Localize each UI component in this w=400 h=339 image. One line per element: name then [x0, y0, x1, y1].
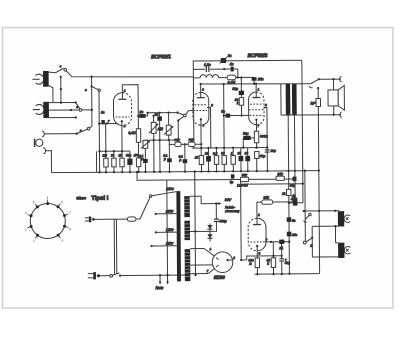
- svg-text:Netz: Netz: [156, 286, 164, 290]
- mains wire: [100, 275, 110, 277]
- resistor 50k: [222, 148, 227, 172]
- svg-text:1n: 1n: [101, 110, 105, 114]
- V1b grid dashes: [193, 105, 207, 111]
- wire S2 to vertical riser: [82, 109, 92, 111]
- riser wire to top rail: [91, 77, 93, 127]
- capacitor 0,1µ mid: [182, 144, 187, 171]
- V3 plate: [253, 202, 261, 224]
- link wire: [289, 202, 303, 204]
- resistor 70k a horizontal: [175, 142, 181, 146]
- potentiometer 2: [164, 125, 173, 135]
- tap wire 110v: [150, 245, 176, 248]
- resistor 70k b horizontal: [188, 142, 195, 146]
- mains plug: [88, 272, 100, 279]
- svg-text:2: 2: [232, 256, 235, 260]
- resistor 1k V1b cathode: [199, 155, 204, 171]
- speaker jack A: [338, 211, 350, 226]
- resistor 10k: [271, 242, 276, 274]
- svg-text:500µ: 500µ: [219, 219, 226, 223]
- resistor 1k cathode: [120, 151, 125, 172]
- transformer bottom wire: [178, 275, 180, 281]
- svg-text:1k: 1k: [195, 156, 199, 160]
- wire vertical from node down to jack2 contacts: [60, 77, 62, 103]
- svg-text:1: 1: [231, 151, 233, 155]
- secondary wire to diodes: [190, 230, 210, 232]
- svg-text:1n: 1n: [230, 62, 234, 66]
- top rail B wire: [193, 60, 302, 148]
- resistor 470k: [136, 158, 140, 167]
- potentiometer 1M volume: [149, 122, 158, 133]
- ground rail: [52, 171, 319, 173]
- power transformer primary core: [176, 191, 181, 281]
- wire pot1 bottom: [153, 133, 155, 171]
- tube V1a ECF82 pentode envelope: [113, 93, 131, 126]
- capacitor 10n: [245, 148, 250, 172]
- plug contact top: [340, 76, 342, 82]
- svg-text:0,1M: 0,1M: [228, 80, 236, 84]
- speaker terminal wires: [332, 78, 335, 116]
- grid wire: [99, 122, 118, 124]
- svg-text:5n: 5n: [221, 110, 225, 114]
- capacitor 5n: [287, 217, 296, 222]
- svg-text:1M: 1M: [102, 154, 107, 158]
- input jack J4: [35, 139, 43, 147]
- svg-text:50: 50: [221, 151, 225, 155]
- resistor box 20v: [276, 176, 284, 180]
- V2 plate: [252, 84, 260, 98]
- jack J5 arc to ground: [43, 147, 51, 172]
- cathode wire: [200, 119, 202, 155]
- svg-text:10: 10: [245, 151, 249, 155]
- mains line: [120, 274, 189, 277]
- capacitor 4µ lower: [292, 194, 297, 201]
- V1b cathode: [200, 118, 202, 120]
- svg-text:25n: 25n: [257, 77, 264, 81]
- svg-text:Gitare: Gitare: [76, 196, 86, 200]
- cathode wire: [121, 121, 123, 151]
- capacitor 25n: [252, 77, 257, 83]
- svg-text:1,2n: 1,2n: [204, 63, 211, 67]
- wire: [256, 143, 258, 148]
- svg-text:30k: 30k: [242, 173, 248, 177]
- rectifier tube EZ80: [212, 252, 233, 273]
- input jack J2: [33, 102, 49, 118]
- grid column wire: [98, 91, 101, 172]
- svg-text:50µ: 50µ: [260, 154, 265, 158]
- wire V2 pin2 to rail: [266, 146, 268, 148]
- sub rail y148: [192, 146, 267, 149]
- heater wire to EZ80 pin7: [189, 273, 208, 275]
- wire pot2 bottom: [168, 135, 170, 140]
- capacitor 0,1µ pot2 leg: [167, 140, 172, 172]
- resistor 70k: [112, 151, 117, 172]
- tap wire 125v: [155, 231, 177, 233]
- svg-text:70k: 70k: [174, 138, 180, 142]
- switch S3: [77, 126, 92, 134]
- svg-text:Tipsi I: Tipsi I: [91, 196, 109, 202]
- sub wire y150.5: [99, 150, 129, 152]
- grid leak to rail: [95, 151, 97, 172]
- capacitor 1n input: [101, 120, 104, 124]
- primary bottom wire down: [287, 115, 290, 189]
- svg-text:1A: 1A: [279, 246, 283, 250]
- node junction: [60, 76, 62, 78]
- wire plate to dropper: [122, 85, 138, 129]
- tube V2 ECF82 output pentode envelope: [248, 92, 264, 125]
- tap wire 220v: [152, 192, 177, 196]
- tube socket diagram: [24, 196, 72, 243]
- plate rail wire y84: [201, 83, 311, 84]
- tone bottom wire: [145, 139, 178, 141]
- svg-text:10: 10: [205, 152, 209, 156]
- feedback capacitor on rail: [220, 57, 227, 63]
- capacitor small on heater line: [292, 177, 296, 182]
- wire: [146, 113, 148, 116]
- pin 2 stub wire: [207, 108, 211, 148]
- svg-text:2n: 2n: [227, 54, 232, 58]
- V1b plate: [197, 84, 205, 98]
- svg-text:5µ: 5µ: [230, 180, 234, 184]
- wire: [311, 226, 313, 237]
- svg-text:5n: 5n: [292, 219, 296, 223]
- V2 grid dashes: [249, 104, 264, 115]
- capacitor 0,1µF: [143, 148, 148, 172]
- svg-text:50µ: 50µ: [271, 149, 276, 153]
- switch S7 on B+ column: [304, 213, 312, 222]
- svg-text:5n: 5n: [155, 113, 159, 117]
- S6 feed wire: [304, 170, 307, 242]
- secondary wire 30V: [190, 196, 222, 205]
- wire jack2 contact b: [49, 109, 79, 111]
- input jack J1: [32, 71, 48, 87]
- jack A bottom wire: [312, 225, 339, 227]
- switch S6: [303, 238, 313, 248]
- wire B+ down right of core: [302, 60, 303, 203]
- output jack line: [304, 210, 339, 212]
- ground return line: [255, 273, 320, 276]
- capacitor 50µ: [127, 151, 132, 172]
- svg-text:2: 2: [264, 103, 267, 107]
- mains switch: [110, 273, 122, 277]
- netz arrow 1: [159, 274, 162, 284]
- switch S2: [76, 103, 82, 112]
- svg-text:ECF82/1: ECF82/1: [151, 54, 171, 60]
- capacitor 25µ: [238, 148, 243, 172]
- svg-text:300Ω: 300Ω: [260, 134, 268, 138]
- voltage selector arm: [140, 195, 152, 219]
- svg-text:30V: 30V: [225, 198, 232, 202]
- V2 cathode: [255, 119, 257, 121]
- title Gitare Tipsi I: [76, 196, 109, 202]
- resistor 30k: [257, 200, 295, 205]
- svg-text:4µ: 4µ: [291, 197, 295, 201]
- V1a cathode: [121, 120, 123, 122]
- cathode wire: [256, 246, 258, 258]
- wire to jack B bottom: [312, 238, 338, 257]
- wire pot1 top: [153, 116, 155, 122]
- wire to rail: [137, 142, 139, 172]
- wire pot2 top: [168, 113, 170, 126]
- wire row2: [193, 68, 205, 70]
- resistor 0,1M: [227, 75, 236, 80]
- capacitor 50µ bypass: [243, 136, 254, 148]
- svg-text:EZ80: EZ80: [214, 275, 225, 280]
- capacitor 25n: [287, 232, 298, 237]
- speaker LS1: [328, 85, 344, 110]
- wire jack2 contact a: [49, 101, 76, 103]
- inductor L1: [193, 74, 227, 77]
- wire below 2k: [288, 196, 291, 274]
- wire to filter caps: [241, 256, 282, 260]
- wire from S1 to top rail: [67, 70, 194, 78]
- capacitor 4µ: [291, 197, 298, 206]
- svg-text:ECF82/2: ECF82/2: [248, 53, 268, 59]
- resistor 56k: [239, 98, 243, 106]
- coupling capacitor 2n: [139, 114, 145, 118]
- svg-text:30k: 30k: [263, 196, 269, 200]
- node: [60, 88, 62, 90]
- sub line y184.5: [240, 179, 242, 184]
- pin 2 stub wire: [264, 107, 267, 147]
- capacitor 5µ: [230, 174, 235, 184]
- secondary feed down: [293, 115, 296, 179]
- tone mid wire: [169, 143, 201, 145]
- mic jack J3 arc: [42, 130, 77, 137]
- column x242: cap 30µ: [239, 77, 245, 115]
- vertical feed line right of transformer: [194, 170, 197, 276]
- wire from dropper column: [240, 184, 243, 260]
- potentiometer 3: [141, 140, 150, 148]
- speaker bottom wire: [281, 114, 341, 116]
- svg-text:50µ: 50µ: [126, 153, 131, 157]
- cathode wire: [255, 120, 257, 131]
- wire to NF resistor: [317, 88, 319, 98]
- capacitor 5n coupling: [226, 113, 231, 117]
- wire jack2 contact c: [49, 116, 76, 118]
- capacitor 1,2n: [206, 67, 208, 72]
- V1a grid dashes: [116, 116, 130, 118]
- svg-text:2n: 2n: [139, 110, 144, 114]
- plate feed column x224: [223, 84, 225, 148]
- svg-text:5k: 5k: [159, 127, 163, 131]
- wire to jack B top: [334, 225, 338, 243]
- svg-text:0,1M: 0,1M: [128, 131, 135, 135]
- svg-text:0,5: 0,5: [213, 151, 218, 155]
- speaker top wire: [319, 78, 341, 80]
- heater line y179.8: [137, 171, 295, 181]
- svg-text:2: 2: [24, 228, 27, 232]
- wire: [236, 76, 254, 78]
- wire NF down: [318, 106, 319, 273]
- V3 cathode: [256, 245, 258, 247]
- rail junction dots: [98, 170, 268, 174]
- netz arrow 2: [165, 180, 168, 284]
- wire: [234, 69, 238, 78]
- svg-text:25n: 25n: [291, 233, 297, 237]
- heater wire to EZ80: [190, 264, 212, 266]
- power transformer secondary windings: [184, 196, 190, 281]
- svg-text:2k: 2k: [281, 192, 286, 196]
- switch S4: [177, 113, 186, 140]
- wire 30k to B+: [294, 179, 296, 202]
- svg-text:2: 2: [210, 103, 213, 107]
- svg-text:30µ: 30µ: [232, 87, 238, 91]
- grid stub wire: [264, 241, 289, 243]
- resistor 2k: [281, 189, 291, 195]
- node: [317, 87, 319, 89]
- svg-text:20k: 20k: [276, 172, 283, 176]
- svg-text:70k: 70k: [188, 138, 194, 142]
- svg-text:70: 70: [111, 153, 115, 157]
- capacitor 50µ V2 cathode: [255, 152, 260, 172]
- capacitor 10n: [206, 148, 211, 172]
- resistor 0,5M: [214, 148, 219, 172]
- resistor box 30v: [240, 177, 248, 181]
- svg-text:25: 25: [236, 151, 241, 155]
- resistor NF: [316, 98, 320, 106]
- capacitor 5n: [157, 113, 162, 140]
- svg-text:50µ: 50µ: [243, 132, 249, 136]
- capacitor 50µ on pin2 leg: [265, 149, 276, 153]
- capacitor 500µ: [210, 202, 219, 231]
- capacitor +50µ: [279, 256, 284, 274]
- V1a plate: [118, 93, 126, 100]
- plug contact bottom: [340, 112, 342, 118]
- switch linkage wires: [114, 219, 117, 274]
- grid2 wire to V2: [224, 114, 249, 116]
- relay tube V3 envelope: [248, 218, 266, 251]
- switch S1: [49, 64, 67, 73]
- EZ80 pin1 wire: [190, 248, 214, 256]
- EZ80 pin7 diagonal: [208, 269, 214, 274]
- capacitor 1n: [231, 67, 234, 72]
- wire top tone bus: [148, 112, 178, 114]
- resistor 1M: [103, 124, 108, 173]
- grid wire to S4: [186, 111, 193, 115]
- fuse: [127, 217, 136, 221]
- resistor 500 ohm cathode: [254, 131, 258, 143]
- node: [222, 60, 224, 62]
- output transformer core: [286, 84, 297, 116]
- resistor 0,1M plate load: [136, 129, 141, 143]
- auxiliary plug: [85, 216, 95, 222]
- resistor 1M: [231, 148, 236, 172]
- tap wire 165v: [155, 213, 177, 215]
- resistor 500 ohm: [255, 258, 260, 274]
- V3 grid dashes: [250, 241, 264, 243]
- wire: [136, 218, 140, 220]
- tube V1b ECF82 triode envelope: [193, 92, 209, 125]
- capacitor 1A grid blob: [279, 240, 284, 256]
- svg-text:1k: 1k: [118, 153, 122, 157]
- fuse line: [94, 218, 127, 220]
- speaker jack B: [338, 243, 350, 258]
- switch Sg on riser: [85, 85, 100, 92]
- wire: [210, 68, 231, 70]
- svg-text:470: 470: [133, 153, 138, 157]
- capacitor 5n leg to rail: [159, 140, 161, 172]
- diode D2: [207, 234, 212, 238]
- speaker switch S5: [309, 78, 320, 88]
- diode D1: [207, 224, 212, 242]
- wire jack1 body to jack2 body: [49, 86, 53, 102]
